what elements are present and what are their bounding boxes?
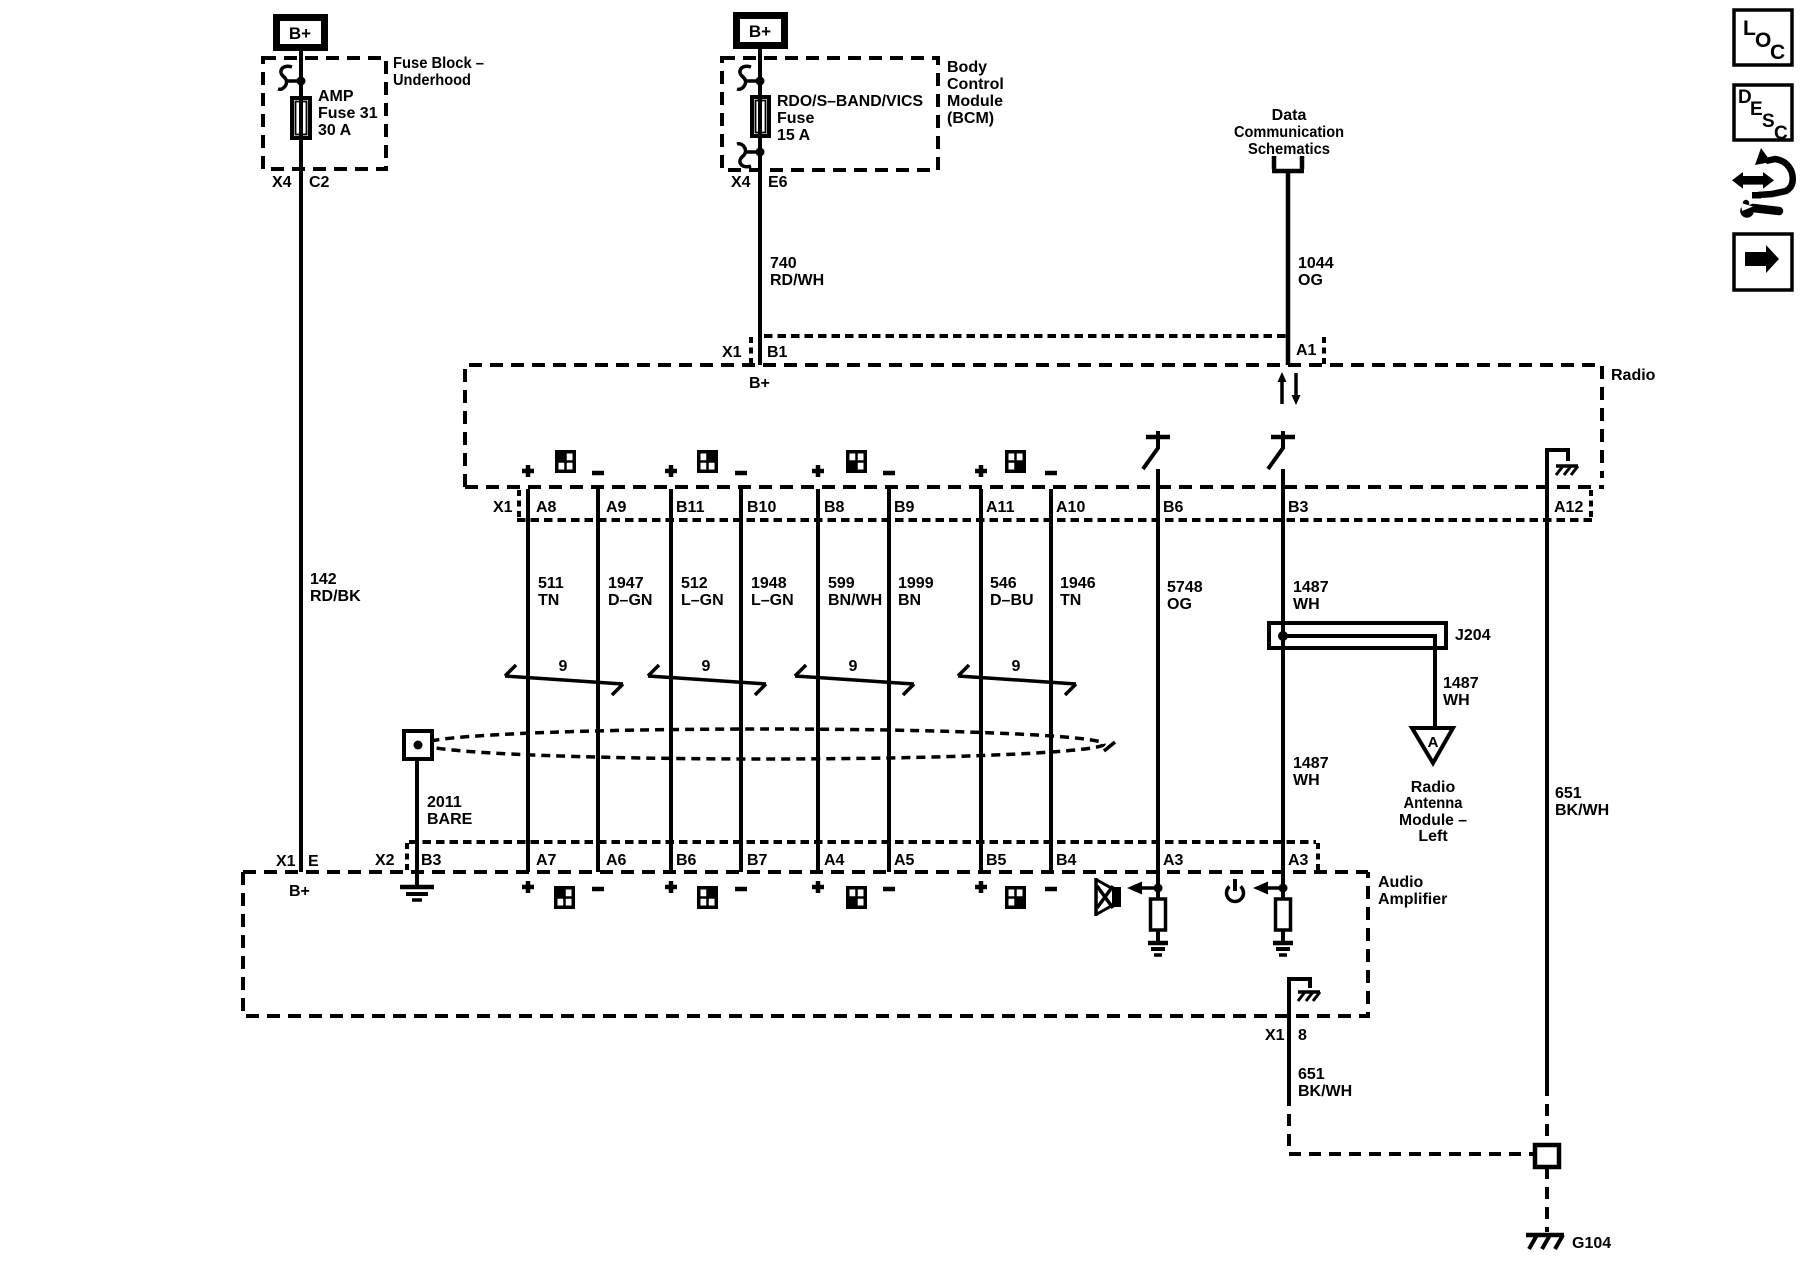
svg-text:J204: J204 [1455,627,1491,644]
svg-text:WH: WH [1293,772,1320,789]
X1 label + separator (radio bottom connector) [493,490,519,519]
ground stub (mute branch) [1156,930,1160,941]
svg-text:B3: B3 [421,852,442,869]
wire B11/B6 512 L-GN [669,489,673,872]
svg-text:A8: A8 [536,499,557,516]
svg-text:L–GN: L–GN [751,592,794,609]
bus bar tap above RDO fuse [737,66,765,89]
label Audio Amplifier [1378,874,1447,908]
svg-text:OG: OG [1167,596,1192,613]
label A1 and separator [1296,337,1324,364]
fuse RDO labels [777,93,923,144]
svg-text:B6: B6 [676,852,697,869]
signal ground (power branch) [1273,943,1293,955]
wire A9/A6 1947 D-GN [596,489,600,872]
label Radio Antenna Module - Left [1399,779,1467,845]
shield fold tick at right end [1104,742,1115,751]
data communication schematics reference label [1234,107,1344,158]
bus bar tap below RDO fuse [737,144,765,167]
forward arrow icon [1734,234,1792,290]
wire 5748 OG radio B6 to amp A3 (mute) [1156,469,1160,899]
svg-text:B7: B7 [747,852,768,869]
splice junction box [1535,1145,1559,1167]
wire 142 RD/BK from B+ through AMP fuse to amplifier X1/E [299,49,303,872]
svg-text:X1: X1 [1265,1027,1285,1044]
svg-text:2011: 2011 [427,794,462,811]
wire 740 RD/WH from B+ through RDO fuse to radio X1/B1 [758,47,762,365]
X2 label + separator [375,843,407,871]
twisted pair symbol with count 9 [958,658,1076,695]
power symbol icon [1227,879,1244,901]
svg-text:X2: X2 [375,852,395,869]
svg-text:9: 9 [702,658,711,675]
shield dashed ellipse around speaker wires [424,729,1104,759]
svg-text:A3: A3 [1288,852,1309,869]
svg-text:A5: A5 [894,852,915,869]
twisted pair symbol with count 9 [795,658,914,695]
radio module dashed box outline [465,365,1602,487]
svg-text:O: O [1755,29,1771,52]
svg-text:BN: BN [898,592,921,609]
svg-text:X4: X4 [272,174,292,191]
svg-text:651: 651 [1555,785,1582,802]
svg-text:E6: E6 [768,174,788,191]
fuse 31 labels [318,88,378,139]
connector X4 / E6 labels [731,174,788,191]
amplifier RF speaker input + polarity [665,881,747,907]
wire label 1487 WH lower [1293,755,1329,789]
svg-text:B6: B6 [1163,499,1184,516]
svg-text:WH: WH [1443,692,1470,709]
svg-text:30 A: 30 A [318,122,352,139]
signal ground (mute branch) [1148,943,1168,955]
svg-text:RD/BK: RD/BK [310,588,361,605]
svg-text:1487: 1487 [1293,579,1329,596]
svg-text:BARE: BARE [427,811,473,828]
wire 1487 WH radio B3 to amp A3 (power) [1281,469,1285,899]
wire label 2011 BARE [427,794,473,828]
svg-text:Control: Control [947,76,1004,93]
radio internal chassis ground to A12 [1547,450,1578,475]
svg-text:A: A [1428,734,1439,751]
svg-text:Audio: Audio [1378,874,1424,891]
wire A11/B5 546 D-BU [979,489,983,872]
amplifier connector dotted line [409,840,1316,844]
twisted pair symbol with count 9 [505,658,623,695]
wire 651 BK/WH radio A12 down [1545,450,1549,1084]
fuse RDO/S-BAND/VICS 15 A body [752,97,769,136]
branch wire 1487 WH to antenna module [1283,636,1435,728]
serial data up/down arrows [1278,372,1301,405]
chassis ground G104 [1526,1235,1564,1249]
shield connection box [404,731,432,759]
amplifier LR speaker input + polarity [812,881,895,907]
svg-text:C: C [1770,41,1785,64]
svg-text:B9: B9 [894,499,915,516]
svg-text:G104: G104 [1572,1235,1611,1252]
svg-text:B8: B8 [824,499,845,516]
svg-text:X1: X1 [276,853,296,870]
radio LF speaker output + polarity [522,452,604,477]
svg-text:E: E [1750,99,1763,120]
svg-text:B11: B11 [676,499,705,516]
twisted pair symbol with count 9 [648,658,766,695]
svg-text:A11: A11 [986,499,1015,516]
svg-text:X1: X1 [722,344,742,361]
svg-text:546: 546 [990,575,1017,592]
svg-text:RD/WH: RD/WH [770,272,824,289]
svg-text:A10: A10 [1056,499,1085,516]
radio antenna module triangle symbol [1412,728,1453,763]
svg-text:B5: B5 [986,852,1007,869]
svg-text:511: 511 [538,575,564,592]
wire label 1044 OG [1298,255,1334,289]
wire B10/B7 1948 L-GN [739,489,743,872]
pickup symbol above radio pin B3 [1268,431,1295,469]
wire label 1999 [898,575,934,609]
svg-text:1487: 1487 [1443,675,1479,692]
svg-text:Radio: Radio [1611,367,1656,384]
wire label 546 [990,575,1034,609]
labels X1 / B1 (radio top connector) [722,344,788,361]
wire label 1946 [1060,575,1096,609]
svg-text:1044: 1044 [1298,255,1334,272]
mute arrow into A3 [1127,882,1163,895]
svg-text:1946: 1946 [1060,575,1096,592]
off-page dashed wire 651 to splice [1289,1094,1533,1154]
LOC navigation icon [1734,10,1792,65]
wire label 512 [681,575,724,609]
svg-text:C2: C2 [309,174,330,191]
off-page connector bracket [1272,156,1304,171]
amplifier bottom connector X1 / 8 labels [1265,1027,1307,1044]
svg-text:9: 9 [559,658,568,675]
svg-text:B+: B+ [289,883,310,900]
svg-text:Module –: Module – [1399,812,1467,829]
wire label 599 [828,575,882,609]
pin separator right of A12 [1589,490,1593,519]
svg-text:D–GN: D–GN [608,592,652,609]
pin separator right of amp A3 [1316,843,1320,871]
wire 651 BK/WH from amplifier X1/8 [1287,1016,1291,1094]
wire label 1947 [608,575,652,609]
svg-text:5748: 5748 [1167,579,1203,596]
amplifier LF speaker input + polarity [522,881,604,907]
ground stub (power branch) [1281,930,1285,941]
svg-text:Radio: Radio [1411,779,1456,796]
junction connector J204 [1269,623,1446,648]
svg-text:651: 651 [1298,1066,1325,1083]
radio bottom edge / connector dashed line [465,485,1604,489]
audio amplifier top edge / connector dashed line [243,870,1368,874]
svg-text:Antenna: Antenna [1404,795,1463,812]
svg-text:BN/WH: BN/WH [828,592,882,609]
wire label 740 RD/WH [770,255,824,289]
svg-text:B4: B4 [1056,852,1077,869]
svg-text:Fuse 31: Fuse 31 [318,105,378,122]
radio LR speaker output + polarity [812,452,895,477]
svg-text:B+: B+ [749,375,770,392]
radio RR speaker output + polarity [975,452,1057,477]
pin separator X1 (top) [749,337,753,364]
wire B9/A5 1999 BN [887,489,891,872]
svg-text:1487: 1487 [1293,755,1329,772]
svg-text:512: 512 [681,575,708,592]
svg-text:Left: Left [1418,828,1448,845]
wire label 511 [538,575,564,609]
svg-text:S: S [1762,111,1775,132]
svg-text:A4: A4 [824,852,845,869]
connector X4 / C2 labels [272,174,330,191]
dashed wire 651 from radio to splice [1545,1084,1549,1145]
svg-text:Communication: Communication [1234,124,1344,141]
wire A3 to load resistor (power) [1281,872,1285,899]
wire label 651 BK/WH (left) [1298,1066,1352,1100]
svg-text:D–BU: D–BU [990,592,1034,609]
load resistor (power branch) [1276,899,1291,930]
svg-text:599: 599 [828,575,855,592]
svg-text:15 A: 15 A [777,127,811,144]
wire label 142 RD/BK [310,571,361,605]
svg-text:BK/WH: BK/WH [1555,802,1609,819]
svg-text:A9: A9 [606,499,627,516]
wire label 1948 [751,575,794,609]
svg-text:9: 9 [1012,658,1021,675]
svg-text:BK/WH: BK/WH [1298,1083,1352,1100]
label Body Control Module (BCM) [947,59,1004,127]
mute speaker icon [1096,878,1121,916]
harness/repair icon: curved arrow [1752,148,1793,199]
svg-text:TN: TN [538,592,559,609]
svg-text:A1: A1 [1296,342,1317,359]
svg-text:X1: X1 [493,499,513,516]
svg-text:142: 142 [310,571,337,588]
radio top connector dotted line [764,334,1288,338]
svg-text:B10: B10 [747,499,776,516]
svg-text:Module: Module [947,93,1003,110]
power arrow into A3 [1253,882,1288,895]
svg-text:B1: B1 [767,344,788,361]
svg-text:1999: 1999 [898,575,934,592]
audio amplifier dashed box outline [243,872,1368,1016]
svg-text:A6: A6 [606,852,627,869]
DESC navigation icon [1734,85,1792,144]
radio RF speaker output + polarity [665,452,747,477]
svg-text:WH: WH [1293,596,1320,613]
wire label 5748 OG [1167,579,1203,613]
amplifier RR speaker input + polarity [975,881,1057,907]
amplifier connector X1 / E labels [276,853,319,870]
svg-text:OG: OG [1298,272,1323,289]
wire label 1487 WH upper [1293,579,1329,613]
fuse block underhood dashed box [263,58,386,169]
svg-text:AMP: AMP [318,88,354,105]
svg-text:740: 740 [770,255,797,272]
svg-text:Schematics: Schematics [1248,141,1330,158]
svg-text:B3: B3 [1288,499,1309,516]
svg-text:E: E [308,853,319,870]
svg-text:B+: B+ [289,24,311,43]
svg-text:1947: 1947 [608,575,644,592]
wire label 651 BK/WH (right) [1555,785,1609,819]
fuse F31 (AMP Fuse 31 30 A) [292,98,310,138]
amplifier internal chassis ground to X1/8 [1289,979,1320,1016]
svg-text:L–GN: L–GN [681,592,724,609]
wire A3 to load resistor (mute) [1156,872,1160,899]
wire B8/A4 599 BN/WH [816,489,820,872]
svg-text:9: 9 [849,658,858,675]
svg-text:X4: X4 [731,174,751,191]
power terminal B+ (second) [733,12,788,49]
harness/repair icon: wrench [1740,200,1779,218]
svg-text:B+: B+ [749,22,771,41]
junction dot inside J204 [1278,631,1288,641]
svg-text:Data: Data [1272,107,1307,124]
dashed wire splice to G104 [1545,1167,1549,1232]
radio bottom connector dotted line [517,518,1592,522]
signal ground below B3 (shield drain ground) [400,887,434,900]
harness/repair icon: double arrow [1732,172,1774,189]
bus bar tap at fuse 31 input [278,66,306,89]
wire A8/A7 511 TN [526,489,530,872]
svg-text:8: 8 [1298,1027,1307,1044]
svg-text:Underhood: Underhood [393,72,471,89]
svg-text:Fuse Block –: Fuse Block – [393,55,484,72]
pickup symbol above radio pin B6 [1143,431,1170,469]
power terminal B+ (left) [273,14,328,51]
label Fuse Block - Underhood [393,55,484,89]
svg-text:A7: A7 [536,852,557,869]
load resistor (mute branch) [1151,899,1166,930]
svg-text:A12: A12 [1554,499,1583,516]
wire A10/B4 1946 TN [1049,489,1053,872]
svg-text:C: C [1774,123,1788,144]
svg-text:Fuse: Fuse [777,110,814,127]
svg-text:(BCM): (BCM) [947,110,994,127]
svg-text:Amplifier: Amplifier [1378,891,1447,908]
svg-text:Body: Body [947,59,987,76]
body control module dashed box [722,58,938,170]
wire 1044 OG from data schematics to radio A1 [1286,171,1291,365]
svg-text:TN: TN [1060,592,1081,609]
wire label 1487 WH branch [1443,675,1479,709]
svg-text:A3: A3 [1163,852,1184,869]
svg-text:1948: 1948 [751,575,787,592]
drain wire 2011 BARE to amplifier X2/B3 [415,759,419,885]
svg-text:RDO/S–BAND/VICS: RDO/S–BAND/VICS [777,93,923,110]
